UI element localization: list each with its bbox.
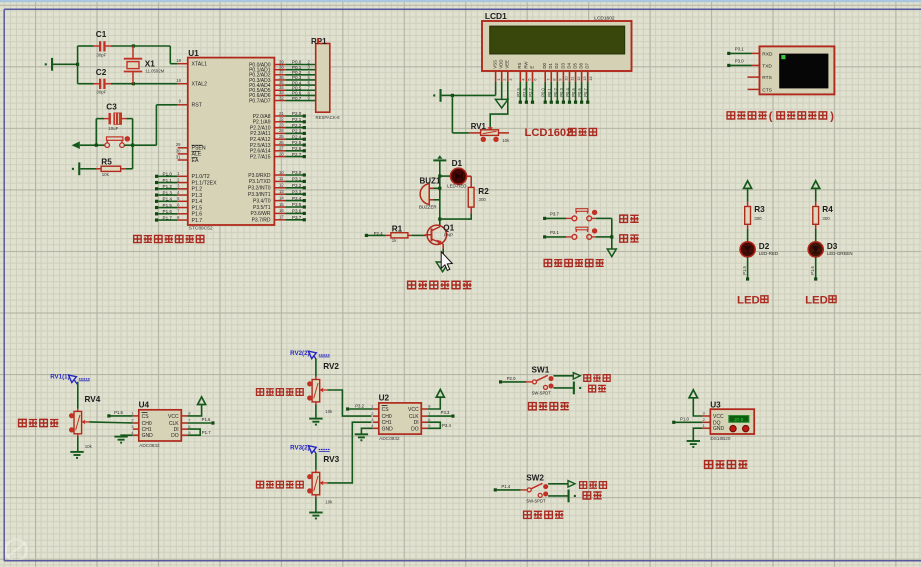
svg-text:CLK: CLK	[169, 421, 179, 427]
svg-text:17: 17	[279, 215, 284, 220]
svg-text:VCC: VCC	[713, 414, 724, 420]
svg-text:300: 300	[822, 216, 830, 221]
svg-text:(: (	[769, 110, 773, 122]
svg-text:P1.4: P1.4	[192, 199, 203, 205]
svg-text:CH1: CH1	[142, 427, 152, 433]
svg-text:P3.0/RXD: P3.0/RXD	[248, 173, 271, 179]
svg-text:D2: D2	[554, 62, 559, 68]
svg-text:VEE: VEE	[505, 60, 510, 69]
svg-text:LCD1: LCD1	[485, 11, 507, 21]
svg-text:10: 10	[564, 76, 569, 81]
svg-text:EA: EA	[192, 158, 199, 164]
svg-text:16: 16	[279, 208, 284, 213]
svg-text:RESPACK-8: RESPACK-8	[316, 115, 341, 120]
svg-text:D1: D1	[452, 159, 463, 168]
svg-text:P1.2: P1.2	[192, 187, 203, 193]
svg-text:LED: LED	[805, 294, 828, 306]
svg-text:P3.2/INT0: P3.2/INT0	[248, 186, 271, 192]
svg-text:P3.3: P3.3	[441, 410, 450, 415]
svg-text:19: 19	[176, 58, 181, 63]
svg-text:RV1: RV1	[471, 122, 487, 131]
svg-text:P0.1: P0.1	[547, 88, 552, 97]
svg-text:R2: R2	[478, 187, 489, 196]
svg-text:P3.4/T0: P3.4/T0	[253, 198, 271, 204]
svg-text:CS: CS	[142, 414, 150, 420]
svg-text:P1.6: P1.6	[810, 266, 815, 275]
svg-text:DI: DI	[174, 427, 179, 433]
svg-text:P1.5: P1.5	[192, 205, 203, 211]
svg-text:CH0: CH0	[142, 421, 152, 427]
svg-text:P3.7: P3.7	[292, 215, 302, 220]
svg-text:P0.6: P0.6	[577, 88, 582, 97]
svg-text:P1.6: P1.6	[202, 417, 211, 422]
svg-text:P2.3: P2.3	[292, 129, 302, 134]
svg-text:BUZZER: BUZZER	[419, 205, 437, 210]
svg-text:P0.2: P0.2	[553, 88, 558, 97]
svg-text:VCC: VCC	[168, 414, 179, 420]
svg-text:E: E	[529, 66, 534, 69]
svg-text:LED: LED	[737, 294, 760, 306]
svg-text:P2.6: P2.6	[292, 146, 302, 151]
svg-text:C1: C1	[96, 30, 107, 39]
svg-text:D3: D3	[560, 62, 565, 68]
svg-text:P1.5: P1.5	[742, 266, 747, 275]
svg-text:26: 26	[279, 140, 284, 145]
svg-text:10k: 10k	[325, 500, 333, 505]
svg-text:P2.6: P2.6	[522, 88, 527, 97]
svg-text:P0.7: P0.7	[583, 88, 588, 97]
svg-text:P0.3: P0.3	[559, 88, 564, 97]
svg-text:29: 29	[176, 142, 181, 147]
svg-text:RV3: RV3	[323, 455, 339, 464]
svg-text:D6: D6	[579, 62, 584, 68]
svg-text:P1.0/T2: P1.0/T2	[192, 174, 210, 180]
svg-text:P2.5: P2.5	[292, 140, 302, 145]
svg-text:P3.1: P3.1	[735, 47, 744, 52]
svg-text:P1.7: P1.7	[163, 215, 173, 220]
svg-text:GND: GND	[142, 433, 154, 439]
svg-text:CH0: CH0	[382, 414, 392, 420]
svg-text:RW: RW	[523, 61, 528, 69]
svg-text:VSS: VSS	[493, 60, 498, 69]
svg-text:P3.4: P3.4	[292, 196, 302, 201]
svg-text:XTAL1: XTAL1	[192, 62, 208, 68]
svg-text:LED-GREEN: LED-GREEN	[827, 251, 853, 256]
svg-text:300: 300	[754, 216, 762, 221]
svg-text:D7: D7	[585, 62, 590, 68]
svg-text:23: 23	[279, 122, 284, 127]
svg-text:22: 22	[279, 117, 284, 122]
svg-text:PNP: PNP	[444, 233, 453, 238]
svg-text:DO: DO	[411, 426, 419, 432]
svg-text:DO: DO	[171, 433, 179, 439]
svg-text:14: 14	[588, 76, 593, 81]
svg-text:10: 10	[279, 170, 284, 175]
svg-text:13: 13	[279, 189, 284, 194]
svg-text:28: 28	[279, 151, 284, 156]
svg-text:RXD: RXD	[762, 51, 773, 57]
svg-text:SW2: SW2	[526, 474, 544, 483]
svg-text:P1.0: P1.0	[680, 417, 689, 422]
svg-text:P3.1: P3.1	[292, 177, 302, 182]
svg-text:R5: R5	[101, 158, 112, 167]
svg-text:P0.7: P0.7	[292, 96, 302, 101]
svg-text:15: 15	[279, 202, 284, 207]
svg-text:P3.6: P3.6	[292, 209, 302, 214]
svg-text:LED-RED: LED-RED	[759, 251, 778, 256]
svg-text:SW1: SW1	[532, 366, 550, 375]
svg-text:P1.1/T2EX: P1.1/T2EX	[192, 180, 218, 186]
svg-text:P0.5: P0.5	[571, 88, 576, 97]
svg-text:RST: RST	[192, 103, 203, 109]
svg-text:P2.7/A15: P2.7/A15	[250, 154, 271, 160]
svg-text:P1.6: P1.6	[192, 212, 203, 218]
svg-text:P2.1: P2.1	[292, 117, 302, 122]
svg-text:10k: 10k	[85, 444, 93, 449]
svg-text:P2.7: P2.7	[528, 88, 533, 97]
svg-text:CS: CS	[382, 407, 390, 413]
svg-text:10k: 10k	[325, 409, 333, 414]
svg-text:10k: 10k	[102, 172, 110, 177]
svg-text:P0.4: P0.4	[565, 88, 570, 97]
svg-text:31: 31	[176, 154, 181, 159]
svg-text:P3.0: P3.0	[292, 170, 302, 175]
svg-text:D2: D2	[759, 242, 770, 251]
svg-text:GND: GND	[382, 426, 394, 432]
svg-text:27.0: 27.0	[734, 417, 743, 422]
svg-text:D3: D3	[827, 242, 838, 251]
svg-text:U3: U3	[710, 400, 721, 409]
svg-text:D0: D0	[542, 62, 547, 68]
svg-text:P2.5: P2.5	[516, 88, 521, 97]
svg-text:P2.0: P2.0	[292, 111, 302, 116]
svg-text:RV2(2): RV2(2)	[290, 350, 310, 357]
svg-text:XTAL2: XTAL2	[192, 82, 208, 88]
svg-text:13: 13	[582, 76, 587, 81]
svg-text:LED-RED: LED-RED	[447, 184, 466, 189]
svg-text:VDD: VDD	[499, 60, 504, 69]
svg-text:P0.0: P0.0	[541, 88, 546, 97]
svg-text:R3: R3	[754, 205, 765, 214]
svg-text:P1.3: P1.3	[192, 193, 203, 199]
svg-text:11.0592M: 11.0592M	[146, 68, 165, 73]
svg-text:): )	[830, 110, 834, 122]
svg-text:300: 300	[479, 197, 487, 202]
svg-text:P3.5: P3.5	[292, 202, 302, 207]
svg-text:RV4: RV4	[85, 395, 101, 404]
svg-text:30: 30	[176, 148, 181, 153]
svg-text:P2.4: P2.4	[292, 134, 302, 139]
svg-text:X1: X1	[145, 59, 155, 68]
svg-text:P2.0: P2.0	[507, 376, 516, 381]
svg-text:C3: C3	[106, 102, 117, 111]
svg-text:P3.0: P3.0	[735, 59, 744, 64]
svg-text:P1.4: P1.4	[163, 197, 173, 202]
svg-text:P3.5/T1: P3.5/T1	[253, 205, 271, 211]
svg-text:25: 25	[279, 134, 284, 139]
svg-text:ALE: ALE	[192, 152, 202, 158]
svg-text:DS18B20: DS18B20	[710, 436, 730, 441]
svg-text:P3.6/WR: P3.6/WR	[250, 211, 270, 217]
svg-text:11: 11	[279, 176, 284, 181]
svg-text:P2.1: P2.1	[550, 230, 559, 235]
svg-text:P3.1/TXD: P3.1/TXD	[249, 179, 271, 185]
svg-text:P3.7: P3.7	[550, 211, 559, 216]
svg-text:RV3(2): RV3(2)	[290, 444, 310, 451]
svg-text:TXD: TXD	[762, 63, 772, 69]
svg-text:SW-SPDT: SW-SPDT	[526, 499, 546, 504]
svg-text:P3.3/INT1: P3.3/INT1	[248, 192, 271, 198]
svg-text:CLK: CLK	[409, 414, 419, 420]
svg-text:R4: R4	[822, 205, 833, 214]
svg-text:P1.5: P1.5	[163, 203, 173, 208]
svg-text:32: 32	[279, 95, 284, 100]
svg-text:LCD1602: LCD1602	[594, 16, 615, 22]
svg-text:D4: D4	[566, 62, 571, 68]
svg-text:12: 12	[576, 76, 581, 81]
svg-text:D5: D5	[572, 62, 577, 68]
svg-text:1k: 1k	[392, 238, 397, 243]
svg-text:P3.2: P3.2	[355, 404, 364, 409]
svg-text:P2.4: P2.4	[374, 231, 383, 236]
svg-text:DI: DI	[414, 420, 419, 426]
svg-text:24: 24	[279, 128, 284, 133]
svg-text:Q1: Q1	[443, 223, 454, 232]
svg-text:RTS: RTS	[762, 75, 772, 81]
svg-text:R1: R1	[392, 225, 403, 234]
svg-text:RV1(1): RV1(1)	[50, 374, 69, 381]
svg-text:30pF: 30pF	[96, 53, 106, 58]
svg-text:21: 21	[279, 111, 284, 116]
svg-text:30pF: 30pF	[96, 89, 106, 94]
svg-text:P1.7: P1.7	[202, 430, 211, 435]
svg-text:SW-SPDT: SW-SPDT	[532, 391, 552, 396]
svg-text:C2: C2	[96, 68, 107, 77]
svg-text:ADC0832: ADC0832	[379, 436, 400, 441]
svg-text:RS: RS	[517, 62, 522, 68]
svg-text:P1.4: P1.4	[501, 484, 510, 489]
svg-text:P1.6: P1.6	[163, 209, 173, 214]
svg-text:10uF: 10uF	[108, 126, 118, 131]
svg-text:U4: U4	[139, 401, 150, 410]
svg-text:P3.7/RD: P3.7/RD	[252, 218, 271, 224]
svg-text:P1.3: P1.3	[163, 190, 173, 195]
svg-text:U1: U1	[188, 49, 199, 58]
svg-text:P3.3: P3.3	[292, 189, 302, 194]
svg-text:PSEN: PSEN	[192, 146, 206, 152]
svg-text:RV2: RV2	[323, 362, 339, 371]
svg-text:P2.2: P2.2	[292, 123, 302, 128]
svg-text:P2.7: P2.7	[292, 152, 302, 157]
svg-text:ADC0832: ADC0832	[139, 443, 160, 448]
svg-text:P3.4: P3.4	[442, 423, 451, 428]
svg-text:P1.2: P1.2	[163, 184, 173, 189]
svg-text:18: 18	[176, 78, 181, 83]
svg-text:CH1: CH1	[382, 420, 392, 426]
svg-text:P1.0: P1.0	[163, 172, 173, 177]
svg-text:P0.7/AD7: P0.7/AD7	[249, 98, 271, 104]
svg-text:P1.1: P1.1	[163, 178, 173, 183]
svg-text:CTS: CTS	[762, 87, 772, 93]
svg-text:P3.2: P3.2	[292, 183, 302, 188]
svg-text:STC89C52: STC89C52	[189, 225, 213, 231]
svg-text:VCC: VCC	[408, 407, 419, 413]
svg-text:12: 12	[279, 183, 284, 188]
svg-text:P1.5: P1.5	[114, 410, 123, 415]
svg-text:BUZ1: BUZ1	[420, 176, 441, 185]
svg-text:P1.7: P1.7	[192, 218, 203, 224]
svg-text:GND: GND	[713, 426, 725, 432]
svg-text:10k: 10k	[502, 138, 510, 143]
svg-text:U2: U2	[379, 394, 390, 403]
svg-text:LCD1602: LCD1602	[525, 127, 573, 139]
svg-text:27: 27	[279, 146, 284, 151]
svg-text:D1: D1	[548, 62, 553, 68]
svg-text:14: 14	[279, 195, 284, 200]
